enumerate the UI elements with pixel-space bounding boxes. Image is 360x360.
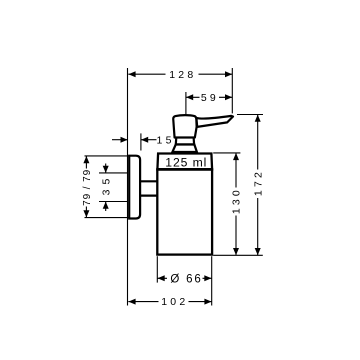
dimension 172 up arrow bbox=[255, 115, 261, 122]
svg-text:79 / 79: 79 / 79 bbox=[82, 169, 93, 206]
mounting arm lower line bbox=[140, 195, 158, 197]
dimension 102 left arrow bbox=[128, 299, 135, 305]
mounting arm upper line bbox=[140, 180, 158, 182]
svg-text:125 ml: 125 ml bbox=[165, 156, 207, 170]
dimension 128 right arrow bbox=[225, 71, 232, 77]
dimension 130 up arrow bbox=[233, 153, 239, 160]
dimension 35 bottom extension line bbox=[99, 201, 127, 203]
dimension diameter 66 left extension line bbox=[156, 256, 158, 282]
svg-text:128: 128 bbox=[169, 69, 196, 81]
dimension 35 top tail line bbox=[105, 164, 107, 173]
dimension 15 right extension line bbox=[140, 133, 142, 150]
dimension 35 bottom tail line bbox=[105, 202, 107, 211]
dimension 172 and 130 shared bottom extension line bbox=[213, 254, 263, 256]
dimension 35 top extension line bbox=[99, 172, 127, 174]
pump lever spout bbox=[196, 116, 233, 127]
bottle top rim with 125 ml label bbox=[157, 154, 212, 170]
dimension 35 bottom arrow bbox=[103, 202, 109, 209]
dimension 59 left extension line bbox=[185, 92, 187, 114]
dimension 172 top extension line bbox=[237, 114, 263, 116]
dimension diameter 66 left arrow bbox=[158, 275, 165, 281]
svg-text:102: 102 bbox=[161, 296, 188, 308]
wall plate bbox=[129, 156, 140, 219]
pump skirt bbox=[172, 145, 197, 153]
dimension 130 top extension line bbox=[213, 152, 240, 154]
svg-text:172: 172 bbox=[252, 169, 264, 196]
dimension 59 line bbox=[186, 96, 232, 98]
dimension 79/79 up arrow bbox=[83, 156, 89, 163]
bottle holder lip line bbox=[157, 168, 213, 171]
dimension 128 left arrow bbox=[128, 71, 135, 77]
dimension diameter 66 right arrow bbox=[204, 275, 211, 281]
svg-text:15: 15 bbox=[157, 134, 175, 146]
dimension 79/79 line lower bbox=[85, 207, 87, 218]
dimension diameter 66 and 102 shared right extension line bbox=[211, 256, 213, 305]
dimension 102 right arrow bbox=[204, 299, 211, 305]
dimension 79/79 bottom extension line bbox=[85, 217, 129, 219]
dimension diameter 66 line bbox=[157, 277, 211, 279]
dimension 59 right arrow bbox=[225, 94, 232, 100]
dimension 102 line bbox=[128, 301, 211, 303]
dimension 15 right arrow bbox=[141, 137, 148, 143]
dimension 172 line bbox=[257, 115, 259, 255]
wall reference line bbox=[127, 68, 129, 306]
dimension 128 right extension line bbox=[231, 68, 233, 113]
dimension 79/79 top extension line bbox=[85, 155, 129, 157]
dimension 79/79 line upper bbox=[85, 156, 87, 169]
dimension 15 right tail line bbox=[141, 139, 157, 141]
dimension 15 left tail line bbox=[112, 139, 128, 141]
svg-text:Ø 66: Ø 66 bbox=[170, 273, 202, 285]
dimension 130 down arrow bbox=[233, 248, 239, 255]
dimension 130 line bbox=[235, 153, 237, 255]
dimension 128 line bbox=[128, 73, 232, 75]
dimension 59 left arrow bbox=[186, 94, 193, 100]
dimension 15 left arrow bbox=[121, 137, 128, 143]
svg-text:59: 59 bbox=[201, 92, 219, 104]
svg-text:130: 130 bbox=[231, 187, 243, 214]
svg-text:35: 35 bbox=[100, 174, 112, 196]
pump cap bbox=[173, 115, 196, 137]
dimension 172 down arrow bbox=[255, 248, 261, 255]
bottle body bbox=[157, 169, 212, 254]
dimension 35 top arrow bbox=[103, 166, 109, 173]
dimension 79/79 down arrow bbox=[83, 210, 89, 217]
pump collar bbox=[176, 137, 194, 144]
